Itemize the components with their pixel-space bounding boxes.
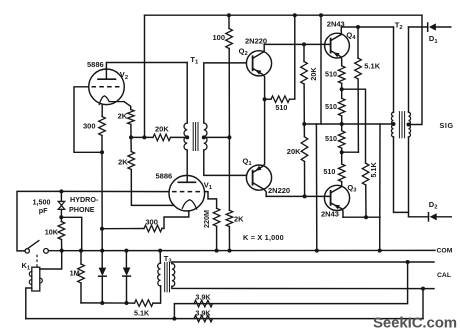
node tapdrop-COM junction bbox=[378, 249, 382, 253]
wire K1 to bottom rail bbox=[26, 288, 32, 319]
svg-text:510: 510 bbox=[325, 102, 337, 111]
wire 5.1K row left bbox=[81, 302, 135, 304]
relay K1 coil body bbox=[32, 267, 40, 291]
svg-text:20K: 20K bbox=[309, 67, 318, 81]
wire 2K lower top lead bbox=[130, 137, 132, 151]
wire 20K upper bottom lead bbox=[303, 84, 305, 124]
node V2 grid-300 junction bbox=[100, 150, 104, 154]
capacitor 1500pF lead bottom bbox=[60, 209, 62, 217]
resistor 510 chain2 bbox=[338, 98, 345, 116]
wire chain link1 bbox=[341, 83, 343, 98]
transistor Q1 base bar bbox=[252, 171, 254, 185]
svg-text:1M: 1M bbox=[70, 269, 80, 278]
node 220M-COM junction bbox=[215, 249, 219, 253]
wire 10K leads bbox=[60, 217, 62, 221]
wire 300 V1 left lead bbox=[102, 228, 144, 230]
wire 510 left lead bbox=[265, 98, 271, 100]
wire T2 primary bottom bbox=[394, 137, 409, 212]
wire diode B bottom lead bbox=[126, 276, 128, 303]
node 1M-COM junction bbox=[79, 249, 83, 253]
wire 5.1K q4 top lead bbox=[357, 27, 359, 58]
resistor 510 chain4 bbox=[338, 164, 345, 182]
transformer T3 secondary winding bbox=[172, 264, 175, 287]
wire V2 cathode lead bbox=[101, 104, 103, 116]
wire chain link2 bbox=[341, 116, 343, 131]
wire D2 output bbox=[437, 216, 452, 218]
wire 220M bottom lead bbox=[216, 226, 218, 250]
tube V1 grid bbox=[172, 191, 202, 193]
transformer T3 primary winding bbox=[158, 263, 161, 286]
svg-text:510: 510 bbox=[325, 69, 337, 78]
node hydrophone junction bbox=[59, 189, 63, 193]
node T2 primary tap bbox=[392, 122, 396, 126]
svg-text:5886: 5886 bbox=[156, 172, 173, 181]
transformer T2 primary lead bbox=[393, 27, 395, 112]
node supply-COM junction bbox=[315, 249, 319, 253]
node diode B bottom junction bbox=[125, 301, 129, 305]
wire T3 primary top lead bbox=[159, 251, 161, 264]
node bias junction bbox=[227, 135, 231, 139]
resistor 220M bbox=[213, 208, 220, 226]
node rail-510 feed junction bbox=[293, 13, 297, 17]
node CAL bottom junction bbox=[421, 287, 425, 291]
transformer T1 primary lead top bbox=[186, 63, 188, 124]
wire 5.1K q3 bottom lead bbox=[365, 185, 367, 217]
wire 300 bottom lead bbox=[101, 136, 103, 153]
transistor Q3 envelope bbox=[324, 185, 349, 210]
svg-text:100: 100 bbox=[213, 33, 226, 42]
wire T3 secondary bottom line bbox=[172, 286, 434, 288]
transistor Q4 collector bbox=[331, 27, 342, 41]
transformer T1 core bbox=[192, 123, 194, 151]
node rail drop junction bbox=[142, 135, 146, 139]
node 20K mid junction bbox=[302, 122, 306, 126]
wire T2 secondary top to D1 bbox=[408, 27, 410, 112]
node Q2-Q4 base junction bbox=[302, 42, 306, 46]
wire D1 output bbox=[436, 26, 451, 28]
svg-text:2N220: 2N220 bbox=[245, 37, 267, 46]
wire 2K lower to V1 bbox=[131, 170, 174, 206]
svg-text:510: 510 bbox=[275, 103, 287, 112]
wire T3 secondary top line bbox=[172, 262, 434, 264]
transistor Q3 base bar bbox=[330, 191, 332, 205]
wire K1 to switch node bbox=[40, 251, 62, 269]
transformer T2 secondary winding bbox=[409, 112, 411, 137]
wire chain to Q3 collector bbox=[341, 182, 343, 187]
svg-text:3.9K: 3.9K bbox=[195, 292, 211, 301]
svg-text:5.1K: 5.1K bbox=[364, 61, 380, 70]
node rail-100ohm junction bbox=[227, 13, 231, 17]
transistor Q3 emitter bbox=[331, 203, 343, 217]
svg-text:5.1K: 5.1K bbox=[369, 162, 378, 178]
wire COM line bbox=[48, 249, 435, 251]
diode B triangle bbox=[123, 268, 131, 276]
svg-text:PHONE: PHONE bbox=[69, 205, 95, 214]
resistor 2K lower bbox=[128, 152, 135, 170]
resistor 10K bbox=[58, 222, 65, 240]
node rail-supply drop junction bbox=[319, 13, 323, 17]
svg-text:SIG: SIG bbox=[440, 121, 454, 130]
resistor 510 chain3 bbox=[338, 131, 345, 149]
node chain junction1 bbox=[340, 87, 344, 91]
transistor Q3 emitter arrow bbox=[334, 205, 340, 210]
resistor 20K horizontal bbox=[153, 134, 171, 141]
transistor Q1 collector bbox=[253, 183, 267, 197]
wire 1M top lead bbox=[80, 251, 82, 264]
capacitor 1500pF plates bbox=[58, 201, 64, 205]
transistor Q4 emitter bbox=[331, 51, 342, 66]
wire V2 grid return bbox=[74, 87, 102, 153]
svg-text:10K: 10K bbox=[45, 227, 59, 236]
resistor 3.9K lower bbox=[194, 315, 213, 322]
node T1 primary tap bbox=[185, 135, 189, 139]
capacitor 1500pF lead top bbox=[60, 191, 62, 201]
wire 1M bottom lead bbox=[80, 283, 82, 303]
svg-text:300: 300 bbox=[145, 217, 158, 226]
wire Q2 collector to Q4 base bbox=[264, 43, 330, 45]
wire T1 primary to V1 plate bbox=[186, 150, 188, 182]
transformer T1 secondary winding bbox=[204, 123, 207, 150]
wire diode B top lead bbox=[125, 251, 127, 268]
tube V2 grid bbox=[92, 86, 122, 88]
wire node row bbox=[304, 123, 393, 125]
svg-text:COM: COM bbox=[437, 247, 453, 254]
transistor Q1 emitter bbox=[253, 99, 265, 172]
transformer T1 primary winding bbox=[184, 123, 187, 150]
resistor 5.1K q3 bbox=[362, 163, 369, 185]
diode B bar bbox=[123, 275, 131, 277]
transformer T2 primary winding bbox=[391, 112, 393, 137]
wire hydrophone line to V1 grid bbox=[61, 190, 169, 192]
svg-text:2K: 2K bbox=[234, 214, 244, 223]
wire bias row left bbox=[131, 136, 153, 138]
node CAL top junction bbox=[406, 260, 410, 264]
wire 100 top lead bbox=[228, 15, 230, 28]
resistor 2K upper bbox=[128, 110, 135, 125]
transistor Q2 emitter arrow bbox=[255, 70, 261, 75]
wire Q3 emitter row bbox=[343, 216, 380, 218]
tube V2 plate bbox=[98, 78, 116, 80]
resistor 5.1K bottom bbox=[135, 300, 154, 307]
wire T2 secondary bottom to D2 bbox=[408, 137, 410, 217]
resistor 510 emitter bbox=[271, 96, 290, 103]
wire Q1 collector to Q3 base bbox=[266, 195, 330, 197]
node 10K-COM junction bbox=[60, 249, 64, 253]
wire CAL top drop bbox=[174, 262, 407, 319]
transistor Q1 envelope bbox=[246, 165, 271, 190]
wire T2 tap drop to COM bbox=[379, 124, 381, 251]
wire hydrophone loop bbox=[17, 191, 61, 251]
wire V1 cathode to 300 bbox=[162, 211, 189, 229]
svg-text:220M: 220M bbox=[202, 210, 211, 228]
node diode A top junction bbox=[100, 249, 104, 253]
svg-text:5.1K: 5.1K bbox=[134, 309, 150, 318]
wire chain1 branch bbox=[342, 89, 366, 163]
node 2K pair junction bbox=[129, 135, 133, 139]
transistor Q4 emitter arrow bbox=[333, 52, 339, 57]
wire V1 grid right to 220M bbox=[205, 192, 217, 209]
tube V1 plate bbox=[178, 181, 195, 183]
transistor Q2 base bar bbox=[252, 56, 254, 70]
wire T1 secondary bottom to Q1 base bbox=[204, 150, 247, 175]
wire 20K upper top lead bbox=[303, 44, 305, 61]
wire chain link3 bbox=[341, 148, 343, 164]
wire bias vertical bbox=[228, 137, 230, 210]
wire rail left drop to bias row bbox=[144, 15, 146, 137]
svg-text:300: 300 bbox=[83, 121, 96, 130]
wire Q4 collector row bbox=[341, 26, 393, 28]
transistor Q2 collector bbox=[253, 44, 265, 58]
node Q1-Q3 base junction bbox=[303, 194, 307, 198]
diode D2 triangle bbox=[430, 213, 437, 220]
wire rail right drop to T2 tap bbox=[409, 15, 423, 124]
resistor 20K upper vertical bbox=[301, 62, 308, 85]
wire 5.1K q4 bottom lead bbox=[357, 79, 359, 152]
svg-text:2K: 2K bbox=[118, 157, 128, 166]
wire supply drop lower bbox=[315, 124, 317, 251]
svg-text:SeekIC.com: SeekIC.com bbox=[373, 315, 457, 332]
node diode A bottom junction bbox=[100, 301, 104, 305]
resistor 300 V1 horizontal bbox=[144, 225, 162, 232]
wire CAL bottom drop bbox=[422, 289, 424, 319]
svg-text:510: 510 bbox=[323, 167, 335, 176]
switch link dashed bbox=[36, 255, 38, 267]
relay K1 left bumps bbox=[29, 272, 31, 277]
svg-text:K = X 1,000: K = X 1,000 bbox=[243, 233, 284, 242]
transistor Q4 envelope bbox=[325, 33, 350, 58]
wire V2 to 2K upper bbox=[124, 102, 131, 110]
transformer T3 core bbox=[164, 262, 166, 291]
node rail-3.9K junction bbox=[172, 317, 176, 321]
svg-text:2K: 2K bbox=[118, 112, 128, 121]
wire diode A top lead bbox=[101, 251, 103, 268]
node 300 tee junction bbox=[100, 227, 104, 231]
svg-text:20K: 20K bbox=[155, 124, 169, 133]
wire 2K upper bottom lead bbox=[130, 124, 132, 137]
wire bottom rail bbox=[26, 318, 423, 320]
wire 20K lower top lead bbox=[303, 124, 305, 137]
svg-text:3.9K: 3.9K bbox=[195, 308, 211, 317]
svg-text:HYDRO-: HYDRO- bbox=[70, 195, 99, 204]
wire D1 anode lead bbox=[409, 26, 428, 28]
wire T1 secondary top to Q2 base bbox=[204, 63, 247, 123]
wire 2K bias bottom bbox=[228, 227, 230, 251]
diode D1 bar bbox=[427, 23, 429, 31]
svg-text:5886: 5886 bbox=[87, 60, 104, 69]
transistor Q3 collector bbox=[331, 186, 342, 193]
wire chain3 branch bbox=[342, 151, 359, 153]
transistor Q2 envelope bbox=[246, 51, 271, 76]
svg-text:CAL: CAL bbox=[437, 272, 451, 279]
resistor 5.1K q4 bbox=[355, 58, 362, 79]
transistor Q1 emitter arrow bbox=[255, 166, 261, 171]
node T3-COM junction bbox=[158, 249, 162, 253]
svg-text:pF: pF bbox=[39, 206, 48, 215]
diode D2 bar bbox=[428, 213, 430, 221]
diode A bar bbox=[99, 275, 107, 277]
node diode B top junction bbox=[124, 249, 128, 253]
node T1 secondary tap bbox=[202, 135, 206, 139]
switch lever bbox=[28, 241, 39, 249]
node T2 secondary tap bbox=[407, 123, 411, 127]
wire 20K lower bottom lead bbox=[304, 162, 306, 197]
resistor 300 V2 bbox=[99, 117, 106, 136]
wire supply drop upper bbox=[320, 15, 322, 124]
wire diode A bottom lead bbox=[101, 276, 103, 303]
wire 20K to T1 tap bbox=[171, 136, 188, 138]
wire cap junction to 1M top bbox=[61, 217, 81, 250]
node 5.1K top junction bbox=[356, 25, 360, 29]
transistor Q4 base bar bbox=[330, 39, 332, 53]
node emitter junction bbox=[263, 97, 267, 101]
switch contact left bbox=[25, 249, 29, 253]
resistor 3.9K upper bbox=[194, 300, 213, 307]
node chain junction2 bbox=[340, 122, 344, 126]
resistor 1M bbox=[78, 264, 85, 283]
transistor Q2 emitter bbox=[253, 68, 265, 99]
tube V2 envelope bbox=[89, 69, 125, 105]
diode D1 triangle bbox=[429, 23, 436, 30]
transformer T2 core bbox=[398, 112, 400, 138]
svg-text:2N43: 2N43 bbox=[321, 210, 339, 219]
resistor 510 chain1 bbox=[338, 66, 345, 84]
wire top supply rail bbox=[145, 14, 423, 16]
tube V2 cathode bbox=[99, 96, 124, 105]
node capacitor junction bbox=[59, 215, 63, 219]
tube V1 cathode bbox=[182, 200, 196, 209]
wire left column vertical bbox=[101, 152, 103, 250]
tube V1 envelope bbox=[169, 175, 205, 211]
wire T1 tap to bias node bbox=[204, 136, 230, 138]
wire V2 plate to T1 primary top bbox=[106, 63, 187, 80]
diode A triangle bbox=[99, 268, 107, 276]
wire D2 anode lead bbox=[409, 216, 429, 218]
wire 510 to rail bbox=[290, 15, 295, 99]
resistor 20K lower vertical bbox=[301, 137, 308, 162]
svg-text:2N220: 2N220 bbox=[268, 186, 290, 195]
resistor 100 bbox=[226, 29, 233, 49]
relay K1 right bump bbox=[40, 278, 43, 283]
node 2K-COM junction bbox=[228, 249, 232, 253]
node chain junction3 bbox=[340, 150, 344, 154]
svg-text:20K: 20K bbox=[287, 147, 301, 156]
wire 5.1K to T3 primary bbox=[153, 286, 161, 303]
resistor 2K bias bbox=[226, 210, 233, 226]
svg-text:510: 510 bbox=[325, 134, 337, 143]
node emitter row junction bbox=[364, 215, 368, 219]
switch contact right bbox=[44, 249, 49, 254]
wire 100 bottom lead to bias node bbox=[228, 49, 230, 138]
